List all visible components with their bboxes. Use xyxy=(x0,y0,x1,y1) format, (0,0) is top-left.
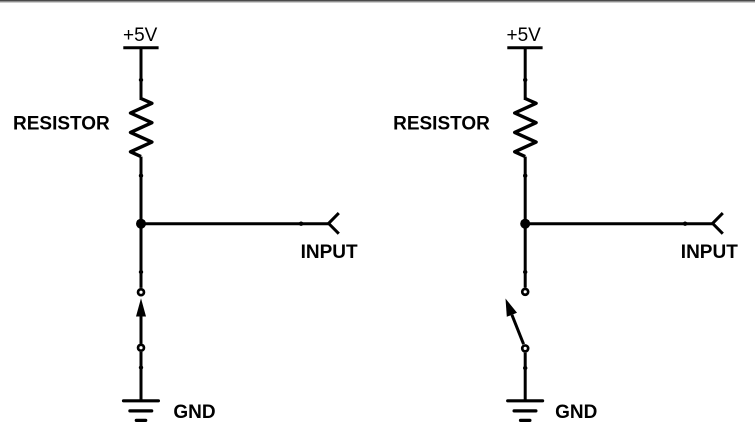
svg-text:+5V: +5V xyxy=(507,25,542,46)
svg-text:GND: GND xyxy=(555,402,597,423)
svg-text:RESISTOR: RESISTOR xyxy=(13,113,110,134)
svg-text:RESISTOR: RESISTOR xyxy=(393,113,490,134)
svg-text:+5V: +5V xyxy=(123,25,158,46)
svg-text:INPUT: INPUT xyxy=(301,242,358,263)
svg-text:INPUT: INPUT xyxy=(681,242,738,263)
svg-text:GND: GND xyxy=(173,402,215,423)
